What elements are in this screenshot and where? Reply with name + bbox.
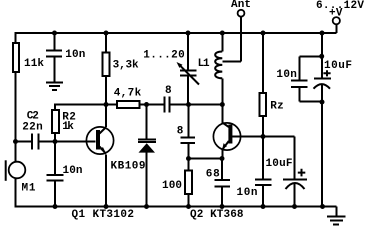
wire Q1 base [55, 141, 96, 143]
wire Q1 collector [100, 127, 107, 134]
resistor 3,3k [105, 34, 107, 52]
node Q2 emitter / 68 [220, 156, 225, 161]
wire Q2 collector [222, 123, 229, 127]
svg-text:68: 68 [206, 169, 220, 181]
capacitor 10n (top-right) [299, 56, 322, 79]
node right rail / 10n2 top [319, 54, 324, 59]
resistor 11k [13, 43, 19, 72]
capacitor 10n (bottom-left) [54, 142, 56, 175]
wire bias to 10uF2 [263, 137, 295, 180]
node left rail / C2 [13, 139, 18, 144]
svg-text:10n: 10n [63, 165, 83, 177]
svg-text:L1: L1 [198, 58, 210, 70]
varicap KB109 [146, 106, 148, 139]
node R2 / C2 / Q1 base [53, 139, 58, 144]
node L1 / Q2 collector [220, 102, 225, 107]
node 4,7k / KB109 junction [144, 102, 149, 107]
wire 10n1 stub from top rail [54, 34, 56, 49]
variable capacitor 1...20 [187, 34, 189, 70]
node top rail / Rz [261, 31, 266, 36]
wire top supply rail [15, 32, 337, 34]
node varicap / cap8v [186, 102, 191, 107]
capacitor 10n (top-left) [46, 50, 62, 56]
node Rz / Q2 base / bias [261, 134, 266, 139]
transistor Q1 KT3102 [86, 127, 113, 154]
svg-text:10n: 10n [276, 69, 297, 81]
node top rail / L1 [220, 31, 225, 36]
node right rail / 10n2 bottom [320, 100, 325, 105]
svg-text:1k: 1k [62, 121, 74, 133]
capacitor 10n (bottom-mid) [262, 138, 264, 179]
svg-text:KB109: KB109 [111, 160, 146, 172]
svg-text:Rz: Rz [270, 101, 284, 113]
svg-text:22n: 22n [22, 122, 43, 134]
inductor L1 [221, 34, 223, 52]
resistor R2 [52, 110, 59, 133]
wire cap8 to varicap node [171, 104, 223, 106]
capacitor 68 [221, 160, 223, 180]
microphone M1 [9, 162, 26, 179]
capacitor 10uF electrolytic (top-right) [314, 78, 331, 80]
wire Q1 emitter [100, 147, 107, 154]
wire antenna down to coil tap [222, 17, 241, 62]
antenna terminal [238, 10, 245, 17]
svg-text:4,7k: 4,7k [114, 87, 142, 99]
wire bottom ground rail [15, 206, 324, 208]
wire left rail [15, 32, 17, 206]
label + polarity [298, 169, 306, 177]
resistor Rz [262, 34, 264, 93]
capacitor 8 (vertical) [187, 106, 189, 137]
capacitor C2 [16, 134, 56, 150]
wire emitter junction [189, 158, 223, 160]
arrow of variable capacitor [180, 66, 199, 85]
wire 4,7k to cap 8 [140, 104, 164, 106]
wire Q2 emitter [222, 141, 229, 150]
svg-text:8: 8 [165, 85, 172, 97]
svg-text:10n: 10n [65, 49, 85, 61]
svg-text:100: 100 [162, 180, 182, 192]
svg-text:10n: 10n [237, 187, 258, 199]
node top rail / 10n1 [52, 31, 57, 36]
node middle wire / 3,3k / Q1 collector [104, 102, 109, 107]
node 100 / cap8v [186, 156, 191, 161]
terminal +V [336, 24, 338, 33]
node bottom rail dots [53, 204, 58, 209]
svg-text:10uF: 10uF [324, 60, 352, 72]
wire right rail upper [321, 33, 323, 79]
svg-text:Ant: Ant [231, 0, 251, 11]
svg-text:8: 8 [177, 126, 184, 138]
resistor 4,7k [117, 101, 140, 108]
node top rail / right rail [320, 31, 325, 36]
svg-text:Q2 KT368: Q2 KT368 [190, 209, 244, 221]
resistor 100 [188, 159, 190, 171]
wire middle (R2 top to 4,7k) [54, 105, 117, 111]
svg-text:6...12V: 6...12V [316, 0, 364, 12]
label + polarity [323, 70, 330, 76]
capacitor 8 (horizontal, series) [165, 96, 170, 112]
ground (bottom-right) [323, 207, 337, 217]
svg-text:M1: M1 [22, 183, 36, 195]
capacitor 10uF electrolytic (bottom-right) [283, 179, 307, 181]
svg-text:3,3k: 3,3k [113, 60, 139, 72]
svg-text:1...20: 1...20 [143, 49, 184, 61]
transistor Q2 KT368 [213, 123, 240, 150]
node top rail / 3,3k [104, 31, 109, 36]
svg-text:Q1 KT3102: Q1 KT3102 [72, 209, 135, 221]
ground (top-left) [46, 82, 63, 90]
svg-text:10uF: 10uF [266, 158, 293, 170]
wire Q2 base [232, 136, 264, 138]
node top rail / varicap [186, 31, 191, 36]
svg-text:11k: 11k [24, 58, 44, 70]
